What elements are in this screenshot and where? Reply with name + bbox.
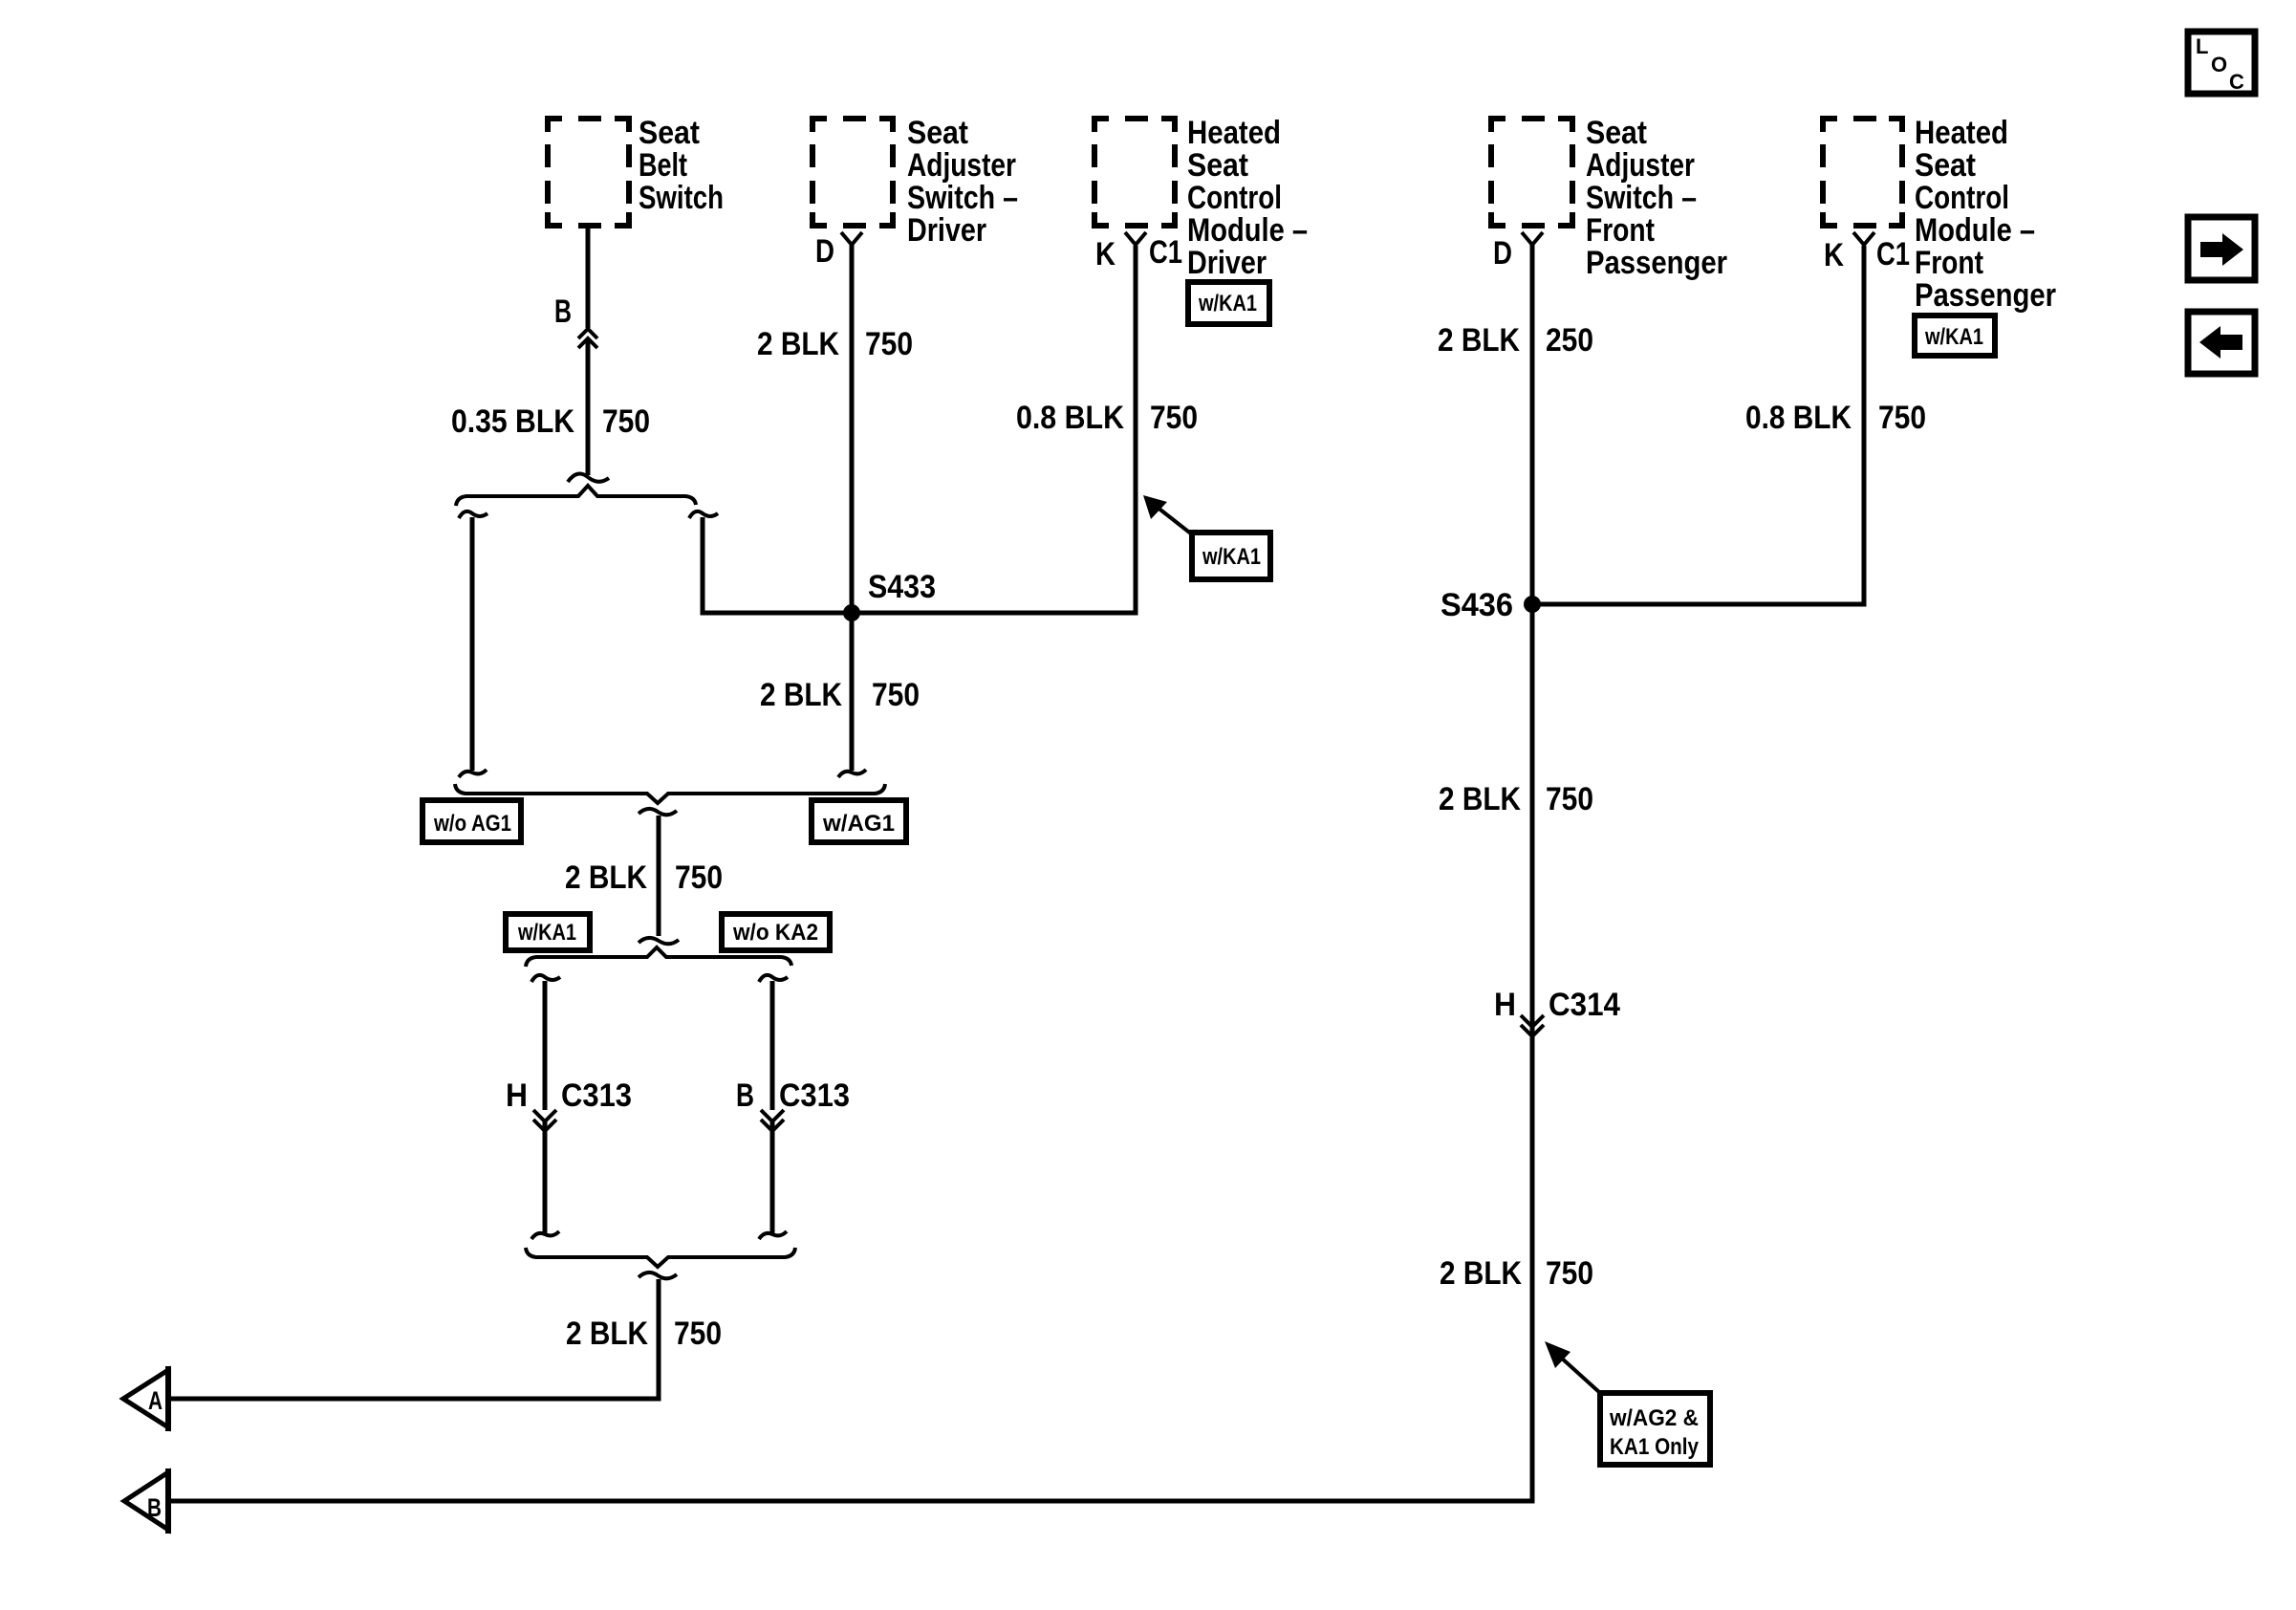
svg-text:C314: C314 (1549, 987, 1620, 1023)
label box: w/AG1 (812, 800, 906, 842)
svg-text:Seat: Seat (1915, 147, 1976, 184)
svg-text:K: K (1095, 236, 1116, 272)
svg-text:750: 750 (1878, 400, 1926, 436)
svg-text:C313: C313 (779, 1077, 850, 1114)
svg-text:2 BLK: 2 BLK (757, 326, 839, 362)
svg-text:750: 750 (1546, 1255, 1593, 1292)
svg-text:C313: C313 (561, 1077, 632, 1114)
svg-text:C1: C1 (1876, 236, 1910, 272)
svg-text:2 BLK: 2 BLK (1439, 781, 1521, 817)
svg-text:250: 250 (1546, 322, 1593, 359)
svg-text:w/KA1: w/KA1 (1202, 544, 1261, 570)
svg-text:0.8 BLK: 0.8 BLK (1745, 400, 1852, 436)
label box: w/KA1 (callout by driver K wire) (1192, 533, 1270, 579)
connector box: Seat Adjuster Switch - Driver (812, 119, 893, 226)
svg-text:0.8 BLK: 0.8 BLK (1016, 400, 1124, 436)
svg-text:KA1 Only: KA1 Only (1610, 1434, 1700, 1460)
wire: seat belt switch to connector break (586, 226, 591, 328)
svg-text:2 BLK: 2 BLK (760, 677, 842, 713)
brace: options join (bottom of C313 branches) (526, 1248, 795, 1267)
LOC legend icon box (2188, 32, 2255, 94)
svg-text:Switch: Switch (639, 180, 724, 216)
wire: seat adjuster driver D down through S433 (850, 245, 855, 771)
svg-text:750: 750 (872, 677, 920, 713)
option wire: w/o KA2 branch (right) (759, 975, 788, 982)
arrow-right glyph (2200, 233, 2243, 266)
svg-text:750: 750 (675, 859, 723, 896)
svg-text:B: B (736, 1077, 754, 1114)
connector chevrons up (seat belt wire) (578, 329, 597, 338)
brace: options join (above w/o AG1 / w/AG1) (455, 784, 885, 803)
svg-text:Heated: Heated (1187, 115, 1281, 151)
svg-text:Seat: Seat (1187, 147, 1248, 184)
label box: w/KA1 (mid option) (506, 914, 590, 950)
svg-text:A: A (148, 1386, 162, 1415)
callout arrow: w/KA1 to driver K wire (1157, 507, 1192, 534)
pin V: seat adjuster front passenger D (1522, 232, 1543, 245)
svg-text:Passenger: Passenger (1586, 245, 1727, 281)
svg-text:w/KA1: w/KA1 (1924, 324, 1983, 350)
svg-text:O: O (2211, 53, 2227, 76)
label box: w/o KA2 (mid option) (722, 914, 830, 950)
label box: w/KA1 (driver module) (1188, 282, 1269, 324)
svg-text:C: C (2229, 70, 2244, 94)
svg-text:750: 750 (602, 403, 650, 440)
svg-text:S433: S433 (868, 569, 936, 605)
arrow-left glyph (2199, 326, 2242, 359)
svg-text:w/KA1: w/KA1 (1198, 291, 1257, 316)
label box: w/AG2 & KA1 Only (1600, 1393, 1710, 1465)
svg-text:2 BLK: 2 BLK (566, 1316, 648, 1352)
svg-text:Switch –: Switch – (907, 180, 1018, 216)
svg-text:w/AG1: w/AG1 (822, 811, 895, 837)
svg-text:w/o KA2: w/o KA2 (732, 920, 818, 946)
svg-text:2 BLK: 2 BLK (1440, 1255, 1522, 1292)
svg-text:Driver: Driver (1187, 245, 1267, 281)
brace: options split (w/KA1 / w/o KA2) (526, 947, 791, 967)
label box: w/o AG1 (422, 800, 521, 842)
svg-text:S436: S436 (1440, 587, 1513, 623)
connector box: Seat Adjuster Switch - Front Passenger (1491, 119, 1572, 226)
svg-text:D: D (815, 233, 834, 270)
svg-text:750: 750 (674, 1316, 722, 1352)
svg-text:C1: C1 (1149, 234, 1182, 271)
svg-text:750: 750 (1546, 781, 1593, 817)
wire: S433 to heated seat module driver K (852, 246, 1136, 613)
wire break tilde (568, 473, 609, 482)
svg-text:D: D (1493, 235, 1512, 272)
wire: connector break down to splice brace (586, 340, 591, 475)
connector chevrons down H C313 (533, 1110, 556, 1121)
svg-text:Front: Front (1915, 245, 1983, 281)
svg-text:750: 750 (1150, 400, 1198, 436)
svg-text:Front: Front (1586, 212, 1655, 249)
svg-text:B: B (554, 294, 572, 330)
callout arrow: w/AG2 & KA1 Only to passenger ground wire (1560, 1357, 1600, 1393)
arrow-right icon box (2188, 217, 2255, 280)
pin V: heated seat module front passenger K C1 (1853, 232, 1874, 245)
connector box: Seat Belt Switch (548, 119, 629, 226)
pin V: heated seat module driver K C1 (1125, 232, 1146, 245)
svg-text:Driver: Driver (907, 212, 986, 249)
connector chevrons down B C313 (761, 1110, 784, 1121)
wire: down to ground lead A (639, 1273, 677, 1278)
svg-text:B: B (147, 1493, 162, 1522)
connector chevrons down H C314 (1521, 1015, 1544, 1027)
svg-text:Control: Control (1915, 180, 2009, 216)
svg-text:H: H (506, 1077, 528, 1114)
pin V: seat adjuster driver D (841, 232, 862, 245)
option wire: w/o AG1 branch (left) (459, 511, 487, 518)
svg-text:Belt: Belt (639, 147, 687, 184)
svg-text:Seat: Seat (639, 115, 700, 151)
svg-text:H: H (1494, 987, 1516, 1023)
splice S433 (843, 604, 860, 621)
svg-text:2 BLK: 2 BLK (565, 859, 647, 896)
svg-text:Module –: Module – (1915, 212, 2035, 249)
svg-text:Module –: Module – (1187, 212, 1308, 249)
svg-text:w/KA1: w/KA1 (517, 920, 576, 946)
svg-text:Passenger: Passenger (1915, 277, 2056, 314)
brace: options split (top) (456, 486, 696, 506)
svg-text:Control: Control (1187, 180, 1282, 216)
svg-text:Switch –: Switch – (1586, 180, 1697, 216)
svg-text:Adjuster: Adjuster (907, 147, 1016, 184)
wire: S436 to heated seat module front passenger K (1532, 246, 1864, 604)
svg-text:0.35 BLK: 0.35 BLK (451, 403, 574, 440)
arrow-left icon box (2188, 312, 2255, 374)
svg-text:Heated: Heated (1915, 115, 2008, 151)
svg-text:K: K (1824, 237, 1844, 273)
wire: seat adjuster front passenger D down through S436 (168, 245, 1532, 1501)
svg-text:w/o AG1: w/o AG1 (433, 811, 511, 837)
off-page arrow B (124, 1472, 168, 1530)
svg-text:L: L (2196, 34, 2208, 58)
splice S436 (1524, 596, 1541, 613)
svg-text:Adjuster: Adjuster (1586, 147, 1695, 184)
option wire: w/AG1 branch to S433 (689, 511, 718, 518)
wire: joined ground lead down (639, 809, 677, 815)
svg-text:750: 750 (865, 326, 913, 362)
connector box: Heated Seat Control Module - Front Passenger (1823, 119, 1902, 226)
option wire: w/KA1 branch (left) (531, 975, 560, 982)
svg-text:w/AG2 &: w/AG2 & (1609, 1405, 1699, 1431)
off-page arrow A (123, 1370, 168, 1427)
svg-text:2 BLK: 2 BLK (1438, 322, 1520, 359)
svg-text:Seat: Seat (1586, 115, 1647, 151)
label box: w/KA1 (passenger module) (1915, 315, 1995, 356)
svg-text:Seat: Seat (907, 115, 968, 151)
connector box: Heated Seat Control Module - Driver (1094, 119, 1175, 226)
